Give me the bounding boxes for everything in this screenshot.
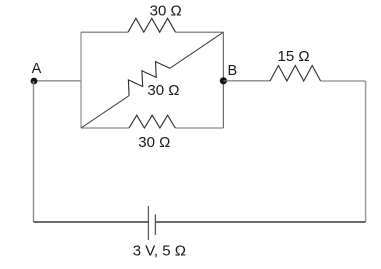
resistor 15ohm [270,66,321,82]
battery long plate [147,206,149,240]
svg-text:30 Ω: 30 Ω [138,134,170,151]
wire 15ohm to right edge [321,80,366,82]
wire box top [81,31,223,33]
wire A to box left side [34,80,81,82]
resistor 30ohm top [128,18,176,32]
wire box bottom [81,127,223,129]
value label 3 V, 5 ohm (battery) [133,242,186,259]
wire left outer down from A [33,81,35,222]
node A [31,61,42,85]
svg-text:A: A [32,61,42,77]
battery short plate [154,214,156,235]
wire diagonal upper segment [170,32,224,68]
value label 30 ohm (bottom) [138,134,170,151]
svg-text:30 Ω: 30 Ω [150,2,182,19]
svg-text:15 Ω: 15 Ω [278,48,310,65]
wire bottom right segment [155,221,366,223]
value label 30 ohm (diagonal) [147,82,179,99]
wire box left vertical [80,32,82,128]
wire diagonal lower segment [81,96,129,128]
node B [220,63,237,85]
resistor 30ohm diagonal [128,62,169,96]
wire box right vertical [222,32,224,128]
svg-text:3 V, 5 Ω: 3 V, 5 Ω [133,242,186,259]
resistor 30ohm bottom [129,115,175,128]
wire bottom left segment [34,221,149,223]
value label 15 ohm [278,48,310,65]
svg-text:30 Ω: 30 Ω [147,82,179,99]
svg-text:B: B [227,63,237,79]
wire B to 15ohm resistor [223,80,270,82]
value label 30 ohm (top) [150,2,182,19]
wire right outer vertical [365,81,367,222]
